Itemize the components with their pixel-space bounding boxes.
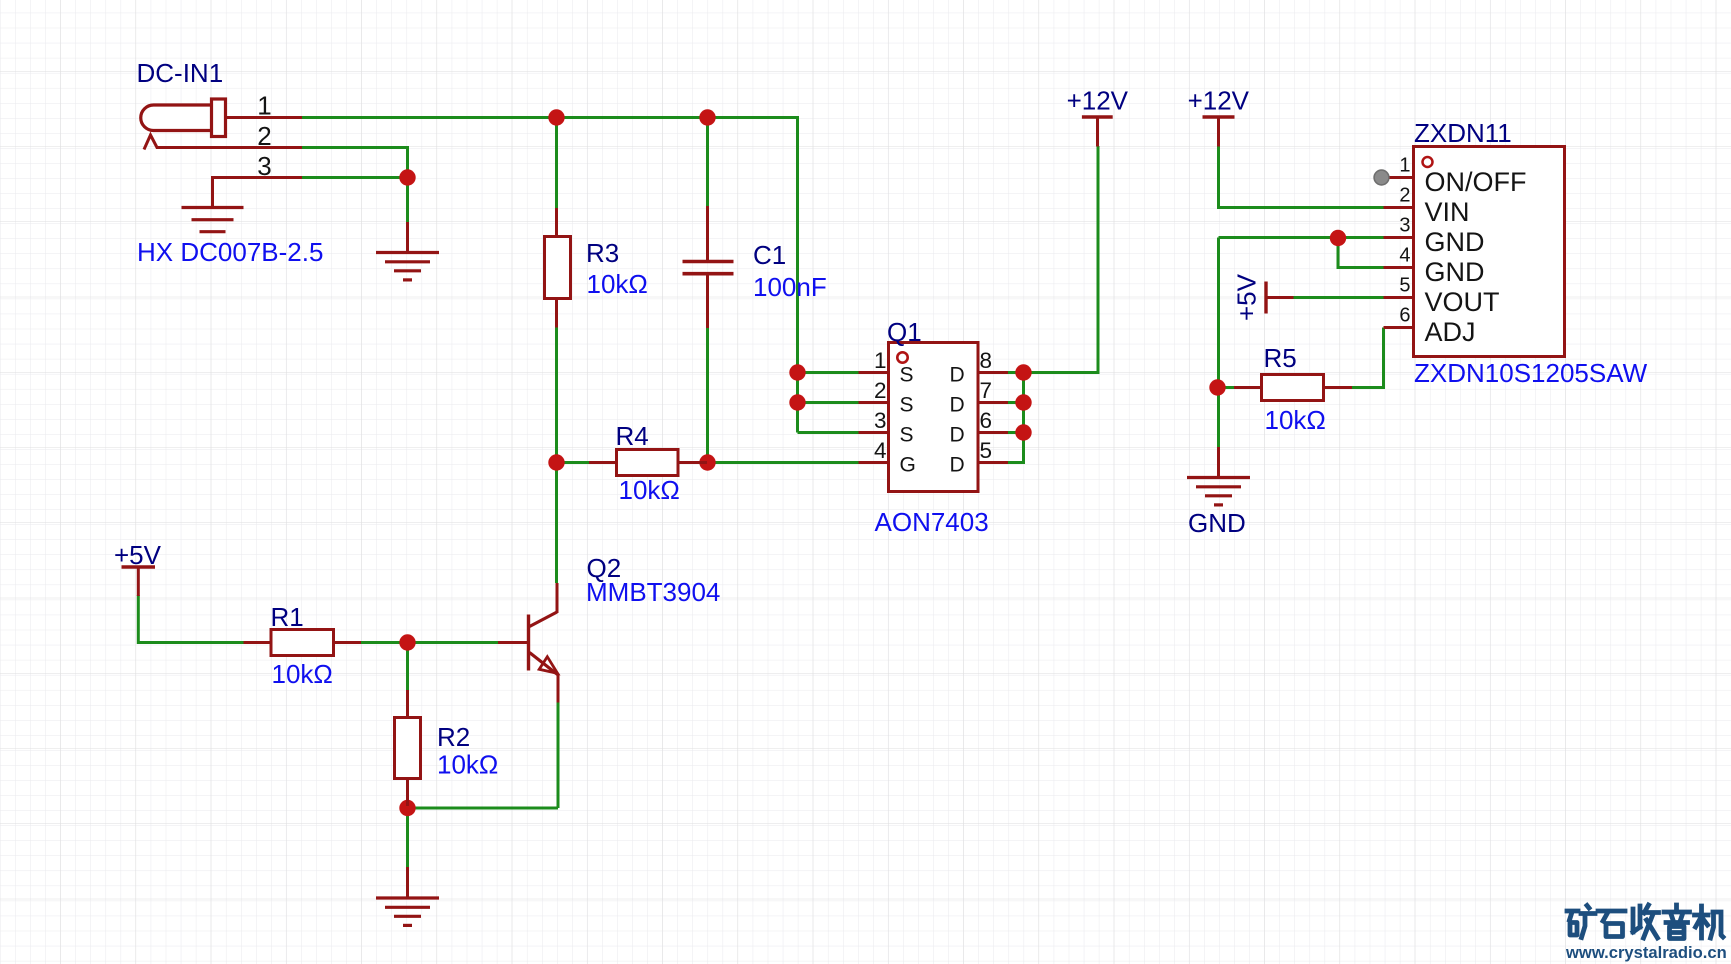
junction node R3/R4/collector <box>548 454 564 470</box>
transistor Q1 AON7403 package body <box>859 343 1009 492</box>
svg-text:HX DC007B-2.5: HX DC007B-2.5 <box>137 237 323 267</box>
power +12V (left, Q1 drain) <box>1082 117 1113 147</box>
wire drop to C1 top <box>706 118 709 208</box>
wire main +12V input net: DC-IN1 pin1 to Q1 source column <box>300 116 798 119</box>
wire pin2/3 net to ground <box>406 178 409 224</box>
wire Q1 pin5 to drain column <box>1008 461 1024 464</box>
wire base node down to R2 <box>406 643 409 691</box>
junction node Q1 pin6 drain <box>1015 424 1031 440</box>
svg-text:5: 5 <box>980 438 993 463</box>
junction node Q1 pin8 drain <box>1015 364 1031 380</box>
DC-IN1 pin numbers <box>257 91 271 182</box>
DC-IN1 pin 2 spring contact <box>144 135 302 150</box>
wire emitter net vertical <box>557 703 560 809</box>
ZXDN11 pin 1 marker <box>1423 157 1433 167</box>
junction node R5/GND <box>1209 379 1225 395</box>
svg-text:S: S <box>900 364 914 387</box>
wire drain column vertical <box>1022 373 1025 465</box>
svg-text:3: 3 <box>874 408 887 433</box>
svg-text:ZXDN10S1205SAW: ZXDN10S1205SAW <box>1414 358 1648 388</box>
svg-text:GND: GND <box>1425 227 1485 257</box>
svg-text:7: 7 <box>980 378 993 403</box>
wire R1 right to base node <box>361 641 408 644</box>
wire Q1 pin8 to drain column <box>1008 371 1024 374</box>
svg-text:MMBT3904: MMBT3904 <box>586 577 720 607</box>
svg-text:3: 3 <box>257 151 271 181</box>
svg-text:2: 2 <box>874 378 887 403</box>
wire GND net vertical <box>1217 238 1220 449</box>
junction node C1/R4/gate <box>699 454 715 470</box>
wire gate net to Q1 pin4 <box>708 461 859 464</box>
ground (ZXDN11 GND net) <box>1187 447 1250 505</box>
svg-text:D: D <box>950 364 965 387</box>
wire ZXDN11 ADJ to R5 <box>1352 328 1384 388</box>
wire R2 bottom node <box>406 806 409 808</box>
wire GND step to pin4 <box>1338 238 1384 268</box>
ZXDN11 pin names <box>1425 167 1527 347</box>
junction node ZXDN GND pins <box>1330 230 1346 246</box>
svg-text:VOUT: VOUT <box>1425 287 1500 317</box>
svg-text:1: 1 <box>257 91 271 121</box>
svg-text:AON7403: AON7403 <box>875 507 989 537</box>
svg-text:+5V: +5V <box>114 540 162 570</box>
resistor R2 <box>395 690 421 806</box>
svg-text:+5V: +5V <box>1232 273 1262 321</box>
Q1 pin numbers <box>874 348 992 463</box>
junction node Q1 pin1 <box>789 364 805 380</box>
ZXDN11 pin numbers <box>1399 155 1410 327</box>
svg-text:D: D <box>950 394 965 417</box>
svg-text:10kΩ: 10kΩ <box>619 475 680 505</box>
svg-text:8: 8 <box>980 348 993 373</box>
wire GND net to ground symbol <box>1217 388 1220 449</box>
svg-text:R1: R1 <box>271 602 304 632</box>
svg-text:ON/OFF: ON/OFF <box>1425 167 1527 197</box>
ground (DC-IN1 pin 3) <box>182 208 244 232</box>
transistor Q2 MMBT3904 (NPN) <box>498 583 558 703</box>
resistor R3 <box>545 208 571 328</box>
DC-IN1 pin 1 <box>226 116 303 119</box>
wire to Q1 pin2 <box>798 401 859 404</box>
wire Q1 pin7 to drain column <box>1008 401 1024 404</box>
wire C1 bottom to R4 right node <box>706 327 709 463</box>
svg-text:S: S <box>900 394 914 417</box>
wire collector net: R3/R4 node down to Q2 collector <box>555 463 558 584</box>
ground (emitter/R2 net) <box>376 867 439 925</box>
wire +5V supply to R1 <box>138 595 243 643</box>
junction node R1/R2/base <box>399 634 415 650</box>
wire vertical to Q1 pins 1-3 <box>796 116 799 433</box>
svg-text:10kΩ: 10kΩ <box>587 269 648 299</box>
svg-text:6: 6 <box>980 408 993 433</box>
svg-text:1: 1 <box>1399 155 1410 177</box>
junction node R2/emitter/ground <box>399 800 415 816</box>
wire +5V to ZXDN11 VOUT <box>1294 296 1384 299</box>
junction node Q1 pin2 <box>789 394 805 410</box>
resistor R4 <box>589 450 707 476</box>
wire R5 left to GND net <box>1217 386 1234 389</box>
connector DC-IN1 barrel jack symbol <box>141 99 302 208</box>
wire DC-IN1 pin2 net <box>300 148 408 178</box>
svg-text:1: 1 <box>874 348 887 373</box>
svg-text:R2: R2 <box>437 722 470 752</box>
svg-text:D: D <box>950 424 965 447</box>
svg-text:6: 6 <box>1399 305 1410 327</box>
wire DC-IN1 pin3 net <box>300 176 408 179</box>
wire base node to Q2 base <box>408 641 499 644</box>
wire R3 bottom to R4 node <box>555 327 558 463</box>
resistor R5 <box>1234 375 1352 401</box>
svg-text:5: 5 <box>1399 275 1410 297</box>
DC-IN1 pin 3 <box>213 178 303 208</box>
power +5V (R1 input) <box>122 567 156 596</box>
junction node +12VIN / C1 <box>699 109 715 125</box>
svg-text:ZXDN11: ZXDN11 <box>1414 118 1512 148</box>
svg-text:DC-IN1: DC-IN1 <box>137 58 224 88</box>
svg-text:R3: R3 <box>586 238 619 268</box>
svg-text:2: 2 <box>257 121 271 151</box>
svg-text:VIN: VIN <box>1425 197 1470 227</box>
watermark logo crystalradio <box>1567 905 1723 939</box>
power +12V (right, ZXDN input) <box>1203 117 1235 147</box>
svg-text:100nF: 100nF <box>753 272 827 302</box>
ground (DC input pin2/3 net) <box>376 222 439 280</box>
resistor R1 <box>244 630 362 656</box>
svg-text:+12V: +12V <box>1067 86 1129 116</box>
wire to Q1 pin1 <box>798 371 859 374</box>
svg-text:10kΩ: 10kΩ <box>1265 405 1326 435</box>
svg-text:www.crystalradio.cn: www.crystalradio.cn <box>1565 943 1727 962</box>
svg-text:10kΩ: 10kΩ <box>437 750 498 780</box>
junction node +12VIN / R3 <box>548 109 564 125</box>
svg-text:R4: R4 <box>616 421 649 451</box>
svg-text:+12V: +12V <box>1188 86 1250 116</box>
wire Q1 pin6 to drain column <box>1008 431 1024 434</box>
svg-text:4: 4 <box>874 438 887 463</box>
unconnected pin marker (gray dot on pin 1) <box>1374 170 1389 185</box>
svg-text:R5: R5 <box>1264 343 1297 373</box>
svg-text:ADJ: ADJ <box>1425 317 1476 347</box>
junction node Q1 pin7 drain <box>1015 394 1031 410</box>
svg-text:G: G <box>900 454 916 477</box>
wire emitter net horizontal <box>408 807 559 810</box>
capacitor C1 <box>683 206 734 328</box>
svg-text:10kΩ: 10kΩ <box>272 659 333 689</box>
wire ZXDN11 GND pin3 net <box>1219 236 1384 239</box>
svg-text:GND: GND <box>1188 508 1246 538</box>
power +5V (ZXDN VOUT, rotated) <box>1266 282 1294 314</box>
wire drain to +12V symbol <box>1024 146 1099 373</box>
svg-text:GND: GND <box>1425 257 1485 287</box>
svg-text:4: 4 <box>1399 245 1410 267</box>
wire emitter node to ground <box>406 808 409 868</box>
svg-text:Q1: Q1 <box>887 317 922 347</box>
svg-text:3: 3 <box>1399 215 1410 237</box>
wire to Q1 pin3 <box>798 431 859 434</box>
wire drop to R3 top <box>555 118 558 210</box>
svg-text:C1: C1 <box>753 240 786 270</box>
Q1 pin 1 marker <box>897 352 907 362</box>
wire R4 node to R4 left lead <box>557 461 590 464</box>
Q1 pin names S S S G / D D D D <box>900 364 965 477</box>
svg-text:2: 2 <box>1399 185 1410 207</box>
wire +12V to ZXDN11 VIN <box>1219 146 1384 208</box>
svg-text:S: S <box>900 424 914 447</box>
IC U ZXDN11 body <box>1384 147 1565 357</box>
svg-text:D: D <box>950 454 965 477</box>
junction node DC-IN pin2/pin3 ground <box>399 169 415 185</box>
